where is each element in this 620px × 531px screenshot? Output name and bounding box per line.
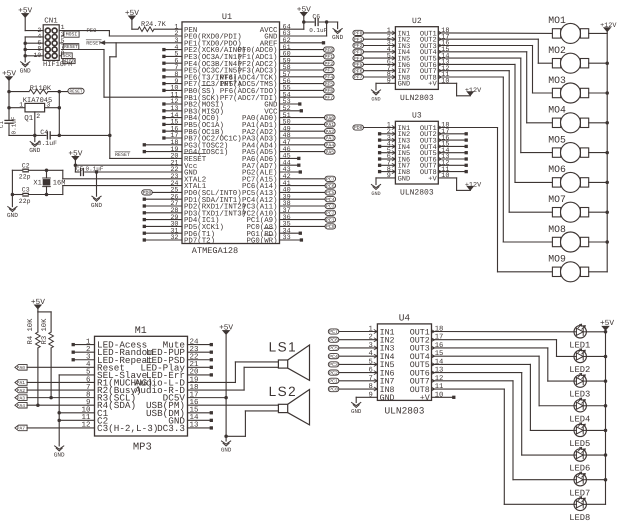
net tag PA4 (U1)	[280, 142, 336, 148]
ground (Q1)	[29, 135, 40, 154]
wire CN1 pin9 stub	[59, 55, 61, 57]
svg-text:RESET: RESET	[86, 40, 101, 46]
wire crystal top rail	[12, 169, 62, 173]
U1 unconnected right pin stubs	[280, 41, 326, 242]
svg-text:PF6: PF6	[354, 68, 363, 74]
U3 unconnected output stubs	[438, 132, 468, 173]
wire PE0	[59, 27, 182, 36]
svg-text:U2: U2	[412, 17, 422, 26]
svg-text:PA7: PA7	[17, 426, 26, 432]
svg-text:PA4: PA4	[17, 403, 26, 409]
wire +12V rail	[605, 32, 609, 272]
wire AVCC	[280, 17, 304, 30]
svg-text:PF4: PF4	[354, 56, 363, 62]
wire +5V to CN1 pin 2	[25, 18, 43, 31]
svg-text:33: 33	[283, 234, 291, 242]
svg-text:GND: GND	[332, 34, 343, 41]
svg-text:R1: R1	[30, 85, 38, 93]
svg-text:PA2: PA2	[325, 129, 334, 135]
svg-text:U4: U4	[399, 312, 411, 323]
svg-text:PC6: PC6	[326, 183, 335, 189]
power +5V (LED rail)	[600, 319, 614, 330]
svg-text:PA1: PA1	[325, 122, 334, 128]
wire U2 GND pin9	[376, 83, 395, 90]
svg-text:PF7: PF7	[354, 75, 363, 81]
svg-text:PC5: PC5	[329, 346, 338, 352]
svg-text:PF0: PF0	[354, 31, 363, 37]
net tag PC1 (U1)	[280, 217, 336, 223]
driver U4 ULN2803	[368, 312, 443, 416]
power +5V (C6)	[297, 5, 311, 16]
svg-text:PF3: PF3	[354, 50, 363, 56]
net tag PC3 (U1)	[280, 203, 336, 209]
wire XTAL2	[63, 170, 182, 179]
motor MO8	[548, 224, 588, 252]
connector CN1 HIF10PM	[33, 17, 72, 70]
LED LED7	[569, 472, 590, 498]
svg-text:U3: U3	[412, 111, 422, 120]
wire U4 GND pin9	[356, 397, 377, 402]
svg-text:32: 32	[170, 234, 178, 242]
svg-text:PE0: PE0	[87, 27, 97, 34]
net tag PF3 (U1)	[280, 67, 335, 73]
svg-text:PC6: PC6	[329, 337, 338, 343]
wire LED5 to +5V rail	[586, 429, 605, 431]
power +12V (U3)	[438, 178, 482, 191]
net tag PF6 (U2)	[353, 68, 396, 74]
net tag PA5 (U1)	[280, 149, 336, 155]
net tag PF5 (U1)	[280, 81, 335, 87]
net tag PC2 (U1)	[280, 210, 336, 216]
svg-text:1: 1	[368, 326, 372, 334]
svg-text:MO7: MO7	[548, 194, 566, 205]
wire U4 OUT4 to LED4	[432, 356, 575, 406]
svg-text:GND: GND	[221, 447, 232, 454]
wire +5V LED rail	[604, 330, 608, 504]
wire MO8 to +12V rail	[589, 241, 608, 243]
svg-text:PD0: PD0	[354, 125, 363, 131]
svg-text:PA0: PA0	[17, 365, 26, 371]
wire U3 OUT1 to MO9	[438, 128, 552, 272]
svg-text:2: 2	[368, 334, 372, 342]
svg-text:0.1uF: 0.1uF	[38, 140, 58, 147]
power +5V (R2)	[125, 9, 139, 20]
wire U2 OUT8 to MO8	[438, 77, 552, 242]
ground (M1 left)	[54, 446, 65, 459]
net tag PC0 (U4)	[328, 386, 377, 392]
svg-text:C1: C1	[0, 121, 5, 129]
svg-text:PF7: PF7	[324, 95, 333, 101]
wire DC5V (M1 pin17)	[188, 397, 227, 399]
svg-text:10: 10	[435, 391, 444, 399]
M1 unconnected right stubs	[188, 343, 213, 430]
svg-text:U1: U1	[222, 12, 232, 22]
svg-text:C3(H-2,L-3): C3(H-2,L-3)	[97, 423, 158, 434]
svg-text:0.1uF: 0.1uF	[309, 27, 327, 34]
net tag PC5 (U4)	[328, 345, 377, 351]
capacitor C3 22p	[19, 186, 31, 204]
net tag PA3 (U1)	[280, 135, 336, 141]
svg-text:6: 6	[368, 367, 372, 375]
svg-text:PC2: PC2	[329, 370, 338, 376]
svg-text:PA5: PA5	[325, 149, 334, 155]
net tag PF4 (U2)	[353, 56, 396, 62]
svg-text:9: 9	[368, 391, 372, 399]
wire GND rail (Q1 block)	[9, 134, 46, 138]
svg-text:PC5: PC5	[326, 190, 335, 196]
wire pullup feed	[38, 309, 51, 312]
net tag PC4 (U1)	[280, 197, 336, 203]
svg-text:PF1: PF1	[354, 37, 363, 43]
svg-text:MO5: MO5	[548, 134, 566, 145]
power +5V (CN1)	[18, 6, 32, 17]
svg-text:1: 1	[61, 24, 65, 31]
net tag PD0 (U3)	[353, 125, 396, 131]
svg-text:MO8: MO8	[548, 224, 566, 235]
svg-text:+V: +V	[428, 175, 437, 183]
net tag PD0 (U1)	[142, 190, 182, 196]
svg-text:MO6: MO6	[548, 164, 566, 175]
svg-text:X1: X1	[33, 180, 41, 188]
driver U3 ULN2803	[387, 111, 450, 197]
wire U4 OUT8 to LED8	[432, 389, 575, 504]
svg-text:PA3: PA3	[17, 395, 26, 401]
ground (U3)	[371, 185, 380, 198]
capacitor C6 0.1uF	[302, 14, 338, 34]
svg-text:5: 5	[368, 358, 372, 366]
svg-text:PF5: PF5	[354, 62, 363, 68]
wire MO7 to +12V rail	[589, 211, 608, 213]
net tag PA0 (M1)	[15, 365, 95, 372]
wire LED2 to +5V rail	[586, 355, 605, 357]
svg-text:+12V: +12V	[600, 22, 617, 30]
wire MO4 to +12V rail	[589, 122, 608, 124]
svg-text:MO4: MO4	[548, 105, 566, 116]
wire GND (U1 pin22)	[85, 170, 182, 174]
svg-text:C4: C4	[40, 129, 48, 136]
LED LED6	[569, 447, 590, 473]
wire U2 OUT5 to MO5	[438, 58, 552, 153]
net tag PC6 (U1)	[280, 183, 336, 189]
net tag PA7 (M1)	[15, 425, 95, 432]
wire crystal bottom rail	[11, 193, 63, 197]
crystal X1 16M	[33, 170, 65, 194]
net tag PC5 (U1)	[280, 190, 336, 196]
capacitor C2 22p	[19, 163, 31, 181]
svg-text:PC2: PC2	[326, 211, 335, 217]
net tag PF1 (U2)	[353, 37, 396, 43]
svg-text:PC1: PC1	[329, 379, 338, 385]
net tag PC7 (U4)	[328, 329, 377, 335]
capacitor C4 0.1uF	[38, 129, 58, 147]
svg-text:22p: 22p	[19, 174, 31, 181]
net tag PC3 (U4)	[328, 362, 377, 368]
svg-text:PC3: PC3	[326, 204, 335, 210]
svg-text:PA4: PA4	[325, 143, 334, 149]
svg-text:PF2: PF2	[354, 43, 363, 49]
LED LED2	[569, 349, 590, 375]
svg-text:GND: GND	[91, 202, 102, 209]
net tag PF1 (U1)	[280, 54, 335, 60]
wire Audio-R (M1 pin18)	[188, 367, 279, 390]
svg-text:PF5: PF5	[324, 81, 333, 87]
wire U2 OUT6 to MO6	[438, 64, 552, 182]
driver U2 ULN2803	[387, 17, 450, 103]
net tag PA3 (M1)	[15, 395, 95, 402]
resistor R4 10K	[27, 312, 40, 405]
svg-text:15: 15	[435, 350, 444, 358]
ground (crystal)	[7, 207, 18, 220]
svg-text:GND: GND	[398, 81, 411, 89]
wire RESET net	[59, 40, 182, 159]
svg-text:+12V: +12V	[465, 182, 482, 190]
ground (C6)	[332, 29, 343, 42]
svg-text:MP3: MP3	[133, 441, 152, 453]
svg-text:10: 10	[441, 172, 449, 180]
wire Vcc (U1 pin21)	[74, 161, 182, 173]
svg-text:ULN2803: ULN2803	[400, 189, 434, 198]
svg-text:7: 7	[368, 375, 372, 383]
wire U2 OUT4 to MO4	[438, 52, 552, 123]
svg-text:PD0: PD0	[143, 190, 152, 196]
wire RESET to CN1 vertical	[50, 134, 110, 136]
net tag PF0 (U2)	[353, 30, 396, 36]
svg-text:MISO: MISO	[63, 59, 75, 65]
svg-text:2: 2	[36, 113, 40, 120]
net tag RESET (R1)	[68, 88, 84, 95]
svg-text:RESET: RESET	[70, 90, 83, 95]
svg-text:18: 18	[435, 326, 444, 334]
net tag PA2 (U1)	[280, 129, 336, 135]
motor MO3	[548, 75, 588, 103]
svg-text:PC0: PC0	[326, 224, 335, 230]
capacitor C1 0.1uF	[0, 116, 18, 135]
LED LED3	[569, 374, 590, 400]
svg-text:GND: GND	[7, 212, 18, 219]
svg-text:PA1: PA1	[17, 380, 26, 386]
wire M1 gnd pins 5,10,11	[57, 375, 94, 446]
svg-text:PG0(WR): PG0(WR)	[246, 237, 277, 246]
op-amp U1 ATMEGA128 body	[170, 12, 290, 256]
net tag PF7 (U2)	[353, 74, 396, 80]
svg-text:PD7(T2): PD7(T2)	[184, 237, 215, 246]
net tag MISO	[63, 59, 75, 65]
wire +5V rail (Q1 block)	[7, 81, 11, 120]
svg-text:4: 4	[368, 350, 372, 358]
wire U4 OUT6 to LED6	[432, 373, 575, 455]
net tag PA1 (U1)	[280, 122, 336, 128]
net tag PA4 (M1)	[15, 402, 95, 409]
svg-text:PC0: PC0	[329, 387, 338, 393]
wire MO9 to +12V rail	[589, 271, 608, 273]
svg-text:GND: GND	[380, 394, 395, 403]
net tag PA1 (M1)	[15, 380, 95, 387]
net tag PC4 (U4)	[328, 354, 377, 360]
net tag PF7 (U1)	[280, 95, 335, 101]
net tag PC6 (U4)	[328, 337, 377, 343]
svg-text:GND: GND	[371, 191, 380, 197]
svg-text:PA3: PA3	[325, 136, 334, 142]
wire crystal gnd	[11, 170, 13, 206]
svg-text:PC3: PC3	[329, 362, 338, 368]
net tag RESET (CN1 pin7)	[63, 44, 79, 50]
svg-text:C3: C3	[22, 186, 30, 193]
wire U4 OUT2 to LED2	[432, 340, 575, 357]
wire LED8 to +5V rail	[586, 503, 605, 505]
power +12V (U2)	[438, 83, 482, 96]
svg-text:0.1uF: 0.1uF	[11, 116, 18, 134]
transistor Q1 KIA7045	[9, 97, 59, 135]
svg-text:DC3.3: DC3.3	[157, 423, 185, 434]
ground (U2)	[371, 90, 380, 103]
svg-text:PC4: PC4	[329, 354, 338, 360]
svg-text:PC1: PC1	[326, 217, 335, 223]
svg-text:10: 10	[441, 78, 449, 86]
resistor R3 10K	[41, 312, 53, 398]
svg-text:PA2: PA2	[17, 388, 26, 394]
capacitor C5 0.1uF	[75, 165, 104, 175]
wire U4 OUT3 to LED3	[432, 348, 575, 381]
net tag MOSI	[62, 31, 80, 37]
svg-text:ULN2803: ULN2803	[384, 406, 424, 417]
wire LED3 to +5V rail	[586, 380, 605, 382]
wire U4 OUT1 to LED1	[432, 331, 575, 333]
net tag PF5 (U2)	[353, 62, 396, 68]
net tag PF2 (U2)	[353, 43, 396, 49]
svg-text:LED8: LED8	[569, 513, 590, 523]
svg-text:C5: C5	[76, 165, 84, 172]
wire U3 GND pin9	[376, 178, 395, 185]
wire LED6 to +5V rail	[586, 454, 605, 456]
power +5V (M1 pullups)	[31, 298, 45, 309]
wire MO5 to +12V rail	[589, 152, 608, 154]
svg-text:13: 13	[435, 367, 444, 375]
power +12V (motor rail)	[600, 22, 617, 32]
wire MO3 to +12V rail	[589, 92, 608, 94]
wire GND (U1 pin63)	[280, 22, 327, 36]
net tag PC0 (U1)	[280, 224, 336, 230]
net tag PA0 (U1)	[280, 115, 336, 121]
svg-text:12: 12	[435, 375, 444, 383]
wire Q1 pin3/RESET vertical	[58, 92, 62, 138]
svg-text:PF6: PF6	[324, 88, 333, 94]
net tag PC1 (U4)	[328, 378, 377, 384]
svg-text:10K: 10K	[39, 85, 52, 93]
wire U4 +V stub	[432, 396, 456, 399]
svg-text:PF4: PF4	[324, 75, 333, 81]
svg-text:R4 10K: R4 10K	[27, 318, 35, 345]
svg-text:0.1uF: 0.1uF	[86, 165, 104, 172]
wire CN1 pins 4,6,8,10 to ground	[23, 37, 43, 62]
svg-text:RESET: RESET	[115, 152, 130, 158]
svg-text:PF3: PF3	[324, 68, 333, 74]
motor MO4	[548, 105, 588, 133]
wire LED1 to +5V rail	[586, 331, 605, 333]
svg-text:LS1: LS1	[269, 340, 298, 355]
net tag PC2 (U4)	[328, 370, 377, 376]
net tag PA2 (M1)	[15, 387, 95, 394]
svg-text:ULN2803: ULN2803	[400, 94, 434, 103]
svg-text:+V: +V	[428, 81, 437, 89]
M1 unconnected left stubs	[72, 343, 95, 361]
svg-text:4.7K: 4.7K	[149, 21, 167, 29]
speaker LS1	[269, 340, 310, 381]
svg-text:PC4: PC4	[326, 197, 335, 203]
LED LED4	[569, 398, 590, 424]
wire MO2 to +12V rail	[589, 62, 608, 64]
U3 unconnected input stubs	[378, 132, 395, 173]
motor MO5	[548, 134, 588, 162]
svg-text:C6: C6	[312, 14, 320, 21]
wire U4 OUT5 to LED5	[432, 364, 575, 430]
svg-text:Q1: Q1	[24, 114, 34, 123]
wire U4 OUT7 to LED7	[432, 381, 575, 480]
power +5V (C5)	[68, 149, 82, 160]
svg-text:11: 11	[435, 383, 444, 391]
motor MO2	[548, 45, 588, 73]
resistor R1 10K	[9, 85, 68, 94]
net tag PC7 (U1)	[280, 176, 336, 182]
wire U2 OUT3 to MO3	[438, 46, 552, 94]
svg-text:22p: 22p	[19, 198, 31, 205]
svg-text:9: 9	[387, 78, 391, 86]
svg-text:GND: GND	[351, 408, 362, 415]
svg-text:GND: GND	[398, 175, 411, 183]
svg-text:+12V: +12V	[465, 87, 482, 95]
U1 unconnected left pin stubs	[143, 48, 182, 242]
svg-text:LS2: LS2	[269, 384, 298, 399]
motor MO7	[548, 194, 588, 222]
wire C5 to gnd	[96, 172, 98, 196]
svg-text:PC7: PC7	[326, 177, 335, 183]
svg-text:PC7: PC7	[329, 329, 338, 335]
svg-text:PF0: PF0	[324, 47, 333, 53]
net tag PF0 (U1)	[280, 47, 335, 53]
svg-text:PF2: PF2	[324, 61, 333, 67]
svg-text:MO2: MO2	[548, 45, 566, 56]
LED LED5	[569, 423, 590, 449]
net tag PF3 (U2)	[353, 49, 396, 55]
svg-text:PA0: PA0	[325, 115, 334, 121]
svg-text:+V: +V	[420, 394, 430, 403]
ground (CN1)	[20, 62, 31, 75]
wire U2 OUT1 to MO1	[438, 32, 552, 35]
LED LED1	[569, 324, 590, 350]
svg-text:GND: GND	[371, 97, 380, 103]
svg-text:M1: M1	[135, 326, 147, 337]
svg-text:17: 17	[435, 334, 444, 342]
wire MO1 to +12V rail	[589, 32, 608, 34]
svg-text:GND: GND	[20, 67, 31, 74]
wire XTAL1	[63, 186, 182, 195]
speaker LS2	[269, 384, 310, 425]
wire LS2 return	[226, 411, 278, 436]
svg-text:MO9: MO9	[548, 254, 566, 265]
wire U2 OUT7 to MO7	[438, 71, 552, 213]
power +5V (Q1)	[2, 70, 16, 81]
net tag SCK	[61, 53, 72, 59]
svg-text:MO3: MO3	[548, 75, 566, 86]
motor MO6	[548, 164, 588, 192]
module M1 MP3	[81, 326, 199, 454]
wire Audio-L (M1 pin19)	[188, 362, 279, 383]
wire U2 OUT2 to MO2	[438, 39, 552, 63]
resistor R2 4.7K	[132, 20, 182, 32]
wire LED4 to +5V rail	[586, 405, 605, 407]
wire +5V/DC5V vertical	[224, 335, 228, 441]
net tag PF2 (U1)	[280, 61, 335, 67]
svg-text:16: 16	[435, 342, 444, 350]
